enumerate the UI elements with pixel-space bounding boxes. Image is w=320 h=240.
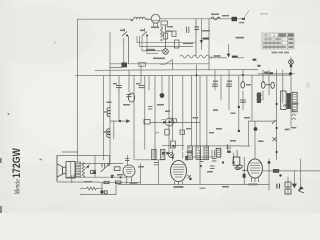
svg-text:Mende: Mende — [14, 179, 22, 195]
svg-text:172GW: 172GW — [11, 148, 23, 178]
